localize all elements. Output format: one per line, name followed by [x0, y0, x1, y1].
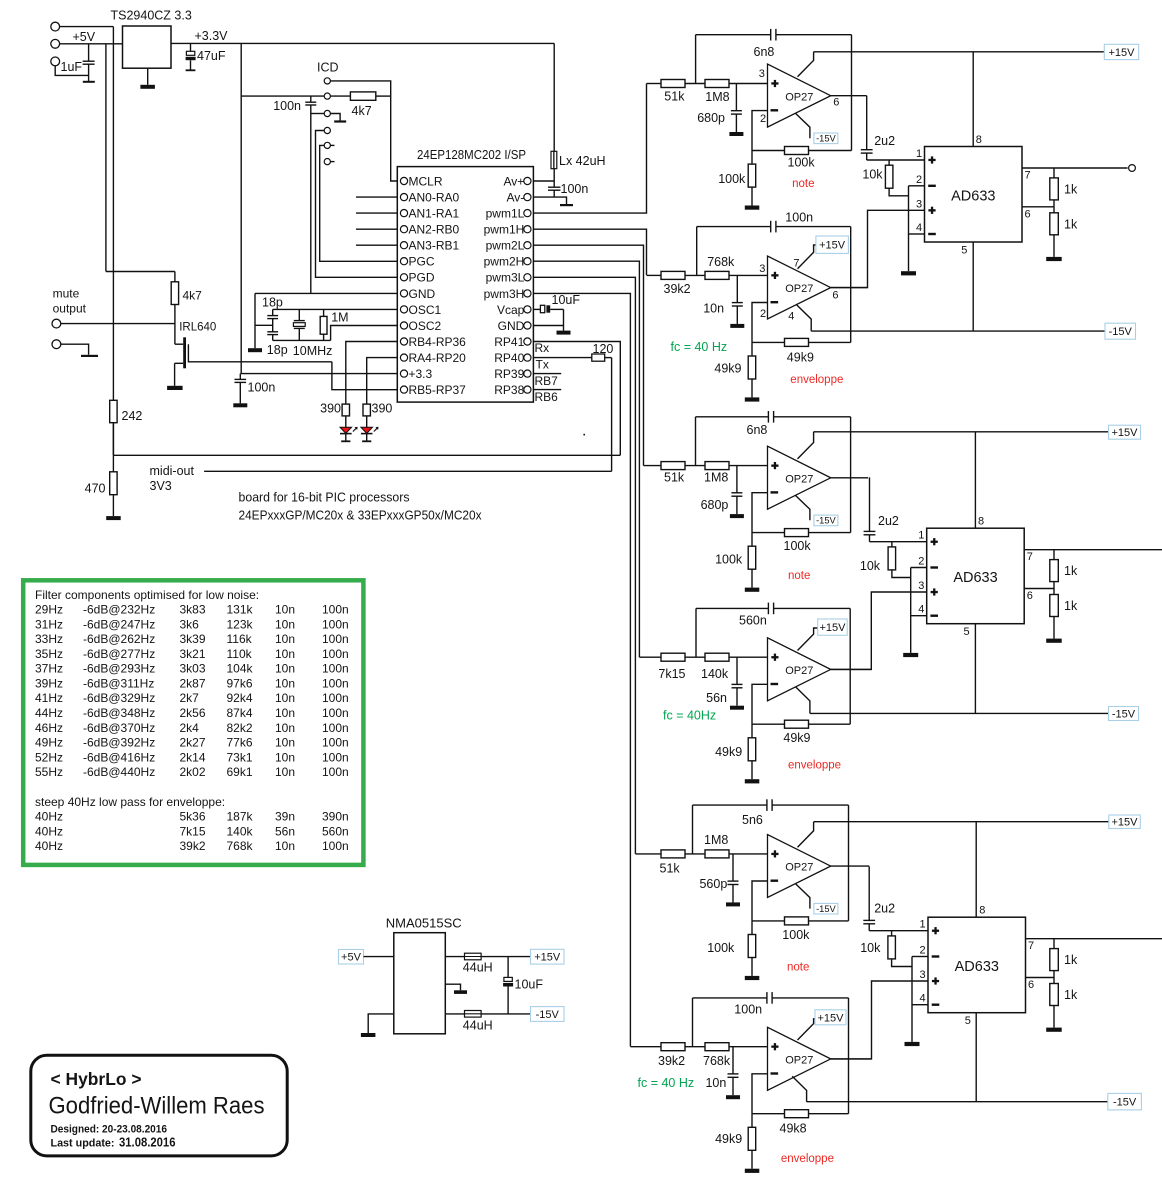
svg-text:104k: 104k — [227, 662, 254, 676]
svg-text:note: note — [792, 178, 814, 190]
svg-text:100k: 100k — [715, 552, 743, 566]
svg-text:OSC2: OSC2 — [409, 319, 442, 333]
svg-text:100n: 100n — [322, 736, 349, 750]
svg-text:2k7: 2k7 — [180, 691, 200, 705]
svg-text:49k9: 49k9 — [715, 745, 742, 759]
svg-text:768k: 768k — [707, 255, 735, 269]
capacitor C1 1uF — [88, 44, 90, 61]
connector ICD pin3 — [324, 110, 330, 116]
capacitor 10uF (NMA) — [507, 957, 509, 978]
node -15V (local) — [814, 903, 838, 914]
resistor 1k (upper) — [1053, 939, 1055, 949]
wire pins 2-4 junction to ground — [911, 957, 913, 1042]
wire pins 2-4 junction to ground — [908, 186, 910, 271]
wire node to feedback rail — [692, 805, 694, 854]
wire node to feedback rail — [695, 35, 697, 84]
svg-text:31.08.2016: 31.08.2016 — [119, 1135, 176, 1150]
wire GND pin (right) — [533, 325, 563, 327]
wire input node — [685, 1046, 705, 1048]
svg-text:5n6: 5n6 — [742, 813, 763, 827]
svg-text:73k1: 73k1 — [227, 750, 253, 764]
svg-text:2: 2 — [918, 556, 924, 568]
op-amp + input mark — [771, 82, 778, 84]
resistor 1k (lower) — [1053, 207, 1055, 213]
svg-text:1k: 1k — [1064, 953, 1078, 967]
wire -15V rail (block2) — [810, 712, 1109, 714]
wire op-amp output — [831, 668, 872, 670]
node -15V (rail 1) — [1105, 323, 1136, 339]
resistor 100k (to ground) — [751, 921, 753, 935]
svg-text:87k4: 87k4 — [227, 706, 253, 720]
wire feedback top rail — [696, 34, 771, 36]
resistor 51k — [661, 80, 685, 88]
svg-text:RB6: RB6 — [535, 390, 559, 404]
wire GND pin to crystal ground — [255, 292, 397, 294]
svg-text:AN2-RB0: AN2-RB0 — [409, 223, 460, 237]
wire +3.3V vertical distribution — [240, 43, 242, 373]
pin MCLR (left) — [400, 177, 407, 184]
resistor 1M8 — [705, 80, 729, 88]
node -15V (rail 3) — [1108, 1093, 1142, 1110]
svg-text:OP27: OP27 — [785, 473, 813, 485]
connector ICD pin1 — [324, 78, 330, 84]
svg-text:1: 1 — [920, 919, 926, 931]
svg-text:Designed: 20-23.08.2016: Designed: 20-23.08.2016 — [51, 1123, 168, 1135]
svg-text:100n: 100n — [273, 99, 301, 113]
pin RP41 (right) — [524, 338, 531, 345]
svg-text:2: 2 — [916, 174, 922, 186]
wire AD633 pin7 output — [1024, 549, 1162, 551]
svg-text:39k2: 39k2 — [180, 839, 206, 853]
svg-text:7: 7 — [1028, 940, 1034, 952]
svg-text:100n: 100n — [322, 691, 349, 705]
wire node to feedback rail — [692, 998, 694, 1047]
wire AD633#3 pin5 to -15V — [975, 1013, 977, 1102]
svg-text:+15V: +15V — [1112, 427, 1139, 439]
ground AD633 pins 2/4 — [903, 653, 918, 657]
svg-text:ICD: ICD — [317, 61, 339, 75]
svg-text:18p: 18p — [262, 296, 283, 310]
wire op-amp - node — [752, 1074, 768, 1114]
svg-text:24EPxxxGP/MC20x & 33EPxxxGP50x: 24EPxxxGP/MC20x & 33EPxxxGP50x/MC20x — [239, 508, 482, 523]
wire op-amp output — [831, 95, 867, 97]
svg-text:6: 6 — [1025, 208, 1031, 220]
wire AD633#2 pin5 to -15V — [974, 624, 976, 714]
svg-text:+3.3V: +3.3V — [195, 29, 229, 43]
resistor 49k9 (feedback) — [752, 341, 785, 343]
AD633 input polarity marks — [931, 541, 938, 543]
resistor 51k — [661, 462, 685, 470]
svg-text:3k21: 3k21 — [180, 647, 206, 661]
svg-text:output: output — [53, 302, 87, 316]
svg-text:69k1: 69k1 — [227, 765, 253, 779]
pin pwm3H (right) — [524, 290, 531, 297]
node -15V (local) — [814, 133, 838, 144]
svg-text:120: 120 — [593, 342, 614, 356]
svg-text:1: 1 — [916, 148, 922, 160]
svg-text:Av+: Av+ — [504, 174, 525, 188]
connector ICD pin2 — [324, 93, 330, 99]
svg-text:MCLR: MCLR — [409, 174, 443, 188]
resistor 49k9 (feedback) — [752, 723, 785, 725]
capacitor 6n8 (feedback) — [770, 29, 772, 41]
svg-text:AD633: AD633 — [955, 959, 999, 975]
resistor 470 — [110, 472, 117, 495]
svg-text:3k6: 3k6 — [180, 617, 200, 631]
pin pwm1L (right) — [524, 210, 531, 217]
ground NMA input return — [368, 1014, 394, 1033]
ground mute return — [61, 344, 89, 355]
svg-text:680p: 680p — [701, 498, 729, 512]
pin RP38 (right) — [524, 386, 531, 393]
wire AD633#1 pin8 to +15V — [972, 52, 974, 147]
svg-text:< HybrLo >: < HybrLo > — [51, 1069, 142, 1089]
ground NMA common — [445, 984, 460, 990]
wire AD633 pin4 — [912, 1004, 928, 1006]
svg-text:NMA0515SC: NMA0515SC — [386, 916, 462, 931]
wire input node — [685, 83, 705, 85]
svg-text:768k: 768k — [227, 839, 254, 853]
ground 1k divider — [1046, 1028, 1062, 1032]
svg-text:116k: 116k — [227, 632, 253, 646]
svg-text:PGD: PGD — [409, 271, 435, 285]
resistor 49k9 (to ground) — [751, 1114, 753, 1128]
capacitor 100n (feedback) — [766, 992, 768, 1004]
svg-text:5k36: 5k36 — [180, 810, 206, 824]
svg-text:OP27: OP27 — [785, 1055, 813, 1067]
wire 242 to Rx junction — [112, 423, 114, 456]
svg-text:AN1-RA1: AN1-RA1 — [409, 207, 460, 221]
resistor 49k8 (feedback) — [752, 1113, 785, 1115]
svg-text:pwm1L: pwm1L — [486, 207, 525, 221]
svg-text:6: 6 — [832, 289, 838, 301]
wire RB5 to Q1 drain — [332, 362, 397, 390]
svg-text:2k27: 2k27 — [180, 736, 206, 750]
wire stub AN0 — [356, 196, 397, 198]
wire op-amp V- pin — [795, 113, 810, 138]
wire AD633 pin1 — [870, 541, 927, 543]
svg-text:10n: 10n — [275, 765, 295, 779]
wire op-amp V- to -15V rail — [792, 1076, 806, 1101]
svg-text:4: 4 — [916, 222, 922, 234]
svg-text:OP27: OP27 — [785, 665, 813, 677]
wire filter input — [639, 656, 661, 658]
svg-text:RB5-RP37: RB5-RP37 — [409, 383, 467, 397]
resistor 10k — [891, 542, 893, 547]
svg-text:-15V: -15V — [816, 134, 836, 144]
DC-DC converter U5 NMA0515SC body — [394, 933, 446, 1034]
crystal X1 10MHz — [298, 309, 300, 320]
svg-text:33Hz: 33Hz — [35, 632, 63, 646]
LED D2 — [366, 416, 368, 427]
wire input node — [685, 853, 705, 855]
svg-text:768k: 768k — [703, 1054, 731, 1068]
wire feedback right rail — [851, 35, 853, 151]
wire +15V rail (top) — [814, 51, 1105, 53]
wire OSC1 rail — [273, 308, 398, 310]
pin Av+ (right) — [524, 177, 531, 184]
op-amp OP27 triangle — [768, 446, 831, 509]
wire pwm1H to filter2 — [533, 229, 646, 275]
svg-text:10k: 10k — [860, 941, 881, 955]
svg-text:51k: 51k — [664, 90, 685, 104]
voltage regulator U2 TS2940CZ 3.3 — [123, 26, 172, 68]
svg-text:47uF: 47uF — [197, 49, 226, 63]
svg-text:2: 2 — [920, 945, 926, 957]
pin OSC1 (left) — [400, 306, 407, 313]
node +15V (local) — [816, 236, 849, 253]
svg-text:110k: 110k — [227, 647, 253, 661]
ground 1k divider — [1046, 639, 1062, 643]
svg-text:10n: 10n — [275, 706, 295, 720]
resistor 100k (feedback) — [752, 920, 785, 922]
pin RA4-RP20 (left) — [400, 354, 407, 361]
resistor 1k (upper) — [1053, 550, 1055, 560]
wire feedback right rail — [849, 608, 851, 724]
capacitor 560n (feedback) — [767, 603, 769, 615]
wire RB4 to LED resistor — [346, 342, 398, 405]
wire AD633 pin1 — [869, 930, 928, 932]
wire +15V rail (bottom) — [814, 821, 1109, 823]
svg-text:51k: 51k — [660, 862, 681, 876]
svg-text:18p: 18p — [267, 343, 288, 357]
node -15V (local) — [814, 515, 838, 526]
transistor Q1 IRL640 — [175, 343, 183, 345]
wire node to feedback rail — [695, 417, 697, 466]
resistor 1k (lower) — [1053, 589, 1055, 595]
terminal mute out — [52, 319, 61, 328]
svg-text:29Hz: 29Hz — [35, 603, 63, 617]
svg-text:40Hz: 40Hz — [35, 839, 63, 853]
op-amp + input mark — [771, 656, 778, 658]
svg-text:3: 3 — [920, 969, 926, 981]
op-amp - input mark — [771, 880, 779, 882]
AD633 input polarity marks — [932, 930, 939, 932]
wire junction to 470 — [112, 455, 114, 472]
resistor 140k — [705, 653, 729, 661]
wire stub AN2 — [356, 228, 397, 230]
wire op-amp - node — [752, 881, 768, 921]
svg-text:pwm1H: pwm1H — [484, 223, 525, 237]
wire Tx riser — [611, 358, 613, 472]
capacitor 6n8 (feedback) — [767, 411, 769, 423]
svg-text:100n: 100n — [322, 750, 349, 764]
pin RB4-RP36 (left) — [400, 338, 407, 345]
svg-text:10uF: 10uF — [515, 978, 544, 992]
wire op-amp V+ to +15V rail — [798, 432, 814, 459]
svg-text:10n: 10n — [275, 632, 295, 646]
svg-text:7k15: 7k15 — [180, 824, 206, 838]
svg-text:49k9: 49k9 — [714, 361, 741, 375]
wire input node — [685, 274, 705, 276]
svg-text:PGC: PGC — [409, 255, 435, 269]
terminal mute gnd — [52, 340, 61, 349]
op-amp + input mark — [771, 274, 778, 276]
node -15V (rail 2) — [1109, 707, 1139, 721]
svg-text:100k: 100k — [718, 172, 746, 186]
svg-text:10n: 10n — [705, 1076, 726, 1090]
wire J1-pin3 to C1 — [55, 66, 88, 76]
svg-text:1M8: 1M8 — [704, 833, 728, 847]
wire r2 to op-amp + — [729, 1046, 768, 1048]
ground regulator — [147, 68, 149, 85]
capacitor 100n (+3.3 decoupling) — [239, 374, 241, 380]
wire filter input — [644, 465, 662, 467]
svg-text:note: note — [787, 962, 809, 974]
svg-text:10n: 10n — [275, 617, 295, 631]
svg-text:enveloppe: enveloppe — [788, 759, 841, 771]
wire AD633 pin6 — [1024, 588, 1054, 590]
svg-text:123k: 123k — [227, 617, 254, 631]
wire RP38 stub — [533, 389, 561, 391]
svg-text:2k4: 2k4 — [180, 721, 200, 735]
capacitor 680p (to ground) — [735, 84, 737, 111]
svg-text:2: 2 — [760, 308, 766, 320]
svg-text:6n8: 6n8 — [754, 45, 775, 59]
connector ICD pin6 — [324, 159, 330, 165]
svg-text:4: 4 — [920, 993, 926, 1005]
resistor 1M — [323, 309, 325, 316]
svg-text:6: 6 — [833, 97, 839, 109]
pin pwm1H (right) — [524, 226, 531, 233]
terminal output — [1129, 165, 1136, 172]
svg-text:100n: 100n — [785, 211, 813, 225]
svg-text:1: 1 — [918, 530, 924, 542]
svg-text:100k: 100k — [784, 539, 812, 553]
pin AN2-RB0 (left) — [400, 226, 407, 233]
wire AD633#3 pin8 to +15V — [975, 822, 977, 918]
svg-text:note: note — [788, 570, 810, 582]
wire feedback right rail — [850, 227, 852, 343]
wire op-amp V- to -15V rail — [796, 687, 810, 714]
wire op-amp V- pin — [795, 884, 810, 909]
svg-text:7: 7 — [1027, 551, 1033, 563]
svg-text:+15V: +15V — [820, 622, 847, 634]
svg-text:-6dB@329Hz: -6dB@329Hz — [83, 691, 155, 705]
resistor 7k15 — [661, 653, 685, 661]
svg-text:10n: 10n — [275, 750, 295, 764]
svg-text:2k56: 2k56 — [180, 706, 206, 720]
node +15V (local) — [818, 619, 848, 635]
terminal J1 pin3 (gnd) — [51, 57, 60, 66]
pin pwm2H (right) — [524, 258, 531, 265]
resistor 242 — [110, 400, 117, 422]
svg-text:1k: 1k — [1064, 218, 1078, 232]
resistor 1k (upper) — [1053, 168, 1055, 178]
svg-text:49Hz: 49Hz — [35, 736, 63, 750]
svg-text:+15V: +15V — [1112, 817, 1139, 829]
op-amp OP27 triangle — [768, 638, 831, 701]
wire op-amp output — [831, 287, 868, 289]
resistor 10k — [888, 160, 890, 165]
wire AD633 pin1 — [867, 159, 925, 161]
node +15V (rail 2) — [1109, 425, 1141, 439]
wire AD633 pin3 from enveloppe filter — [831, 210, 925, 287]
svg-text:100n: 100n — [322, 839, 349, 853]
terminal J1 pin1 — [51, 22, 60, 31]
wire -15V rail (block3) — [807, 1101, 1108, 1103]
pin RP40 (right) — [524, 354, 531, 361]
wire op-amp output — [831, 477, 868, 479]
inductor Lx 42uH — [553, 43, 555, 151]
svg-text:-6dB@311Hz: -6dB@311Hz — [83, 677, 154, 691]
svg-text:2: 2 — [760, 113, 766, 125]
svg-text:-15V: -15V — [536, 1009, 560, 1021]
svg-text:390: 390 — [320, 402, 341, 416]
svg-text:82k2: 82k2 — [227, 721, 253, 735]
svg-text:49k9: 49k9 — [787, 351, 814, 365]
svg-text:OSC1: OSC1 — [409, 303, 442, 317]
svg-text:10n: 10n — [275, 647, 295, 661]
node +15V (NMA out) — [531, 949, 565, 964]
svg-text:+15V: +15V — [534, 952, 561, 964]
wire feedback top rail — [693, 997, 767, 999]
resistor 100k (feedback) — [752, 150, 785, 152]
svg-text:fc = 40Hz: fc = 40Hz — [663, 708, 716, 722]
svg-text:-15V: -15V — [1112, 709, 1136, 721]
svg-text:1k: 1k — [1064, 599, 1078, 613]
resistor 4k7 (MCLR pullup) — [330, 95, 350, 97]
multiplier AD633 body — [927, 528, 1024, 624]
svg-text:pwm3H: pwm3H — [484, 287, 525, 301]
svg-text:37Hz: 37Hz — [35, 662, 63, 676]
ground 470 — [112, 495, 114, 516]
svg-text:56n: 56n — [706, 691, 727, 705]
svg-text:Godfried-Willem Raes: Godfried-Willem Raes — [49, 1093, 265, 1120]
svg-text:5: 5 — [965, 1015, 971, 1027]
svg-text:+15V: +15V — [819, 240, 846, 252]
pin OSC2 (left) — [400, 322, 407, 329]
capacitor 100n (ICD decoupling) — [305, 101, 316, 103]
svg-text:-15V: -15V — [1109, 326, 1133, 338]
wire feedback right rail — [848, 998, 850, 1114]
connector ICD pin4 — [324, 127, 330, 133]
resistor 390 (LED2) — [363, 404, 370, 416]
svg-text:100n: 100n — [322, 632, 349, 646]
wire filter input — [635, 853, 661, 855]
capacitor 560p (to ground) — [732, 854, 734, 881]
pin AN0-RA0 (left) — [400, 194, 407, 201]
wire pwm2H to filter4 — [533, 261, 639, 657]
svg-text:39k2: 39k2 — [658, 1054, 685, 1068]
svg-text:1M8: 1M8 — [705, 90, 729, 104]
op-amp + input mark — [771, 1046, 778, 1048]
wire filter input — [647, 83, 662, 85]
svg-text:8: 8 — [979, 905, 985, 917]
resistor 39k2 — [661, 271, 685, 279]
wire RP41 (Rx) — [533, 342, 620, 456]
inductor 44uH (-15V) — [445, 1013, 464, 1015]
svg-text:OP27: OP27 — [785, 283, 813, 295]
svg-text:RP41: RP41 — [494, 335, 524, 349]
svg-text:8: 8 — [978, 516, 984, 528]
svg-text:5: 5 — [964, 626, 970, 638]
op-amp - input mark — [771, 683, 779, 685]
svg-text:39k2: 39k2 — [664, 282, 691, 296]
wire input node — [685, 656, 705, 658]
resistor 1k (lower) — [1053, 978, 1055, 984]
svg-text:52Hz: 52Hz — [35, 750, 63, 764]
wire op-amp V- pin — [795, 495, 810, 520]
svg-text:fc = 40 Hz: fc = 40 Hz — [638, 1076, 695, 1090]
svg-text:steep 40Hz low pass for envelo: steep 40Hz low pass for enveloppe: — [35, 795, 225, 809]
op-amp - input mark — [771, 491, 779, 493]
resistor 1M8 — [705, 462, 729, 470]
svg-text:pwm3L: pwm3L — [486, 271, 525, 285]
svg-text:7k15: 7k15 — [658, 667, 685, 681]
resistor 51k — [661, 850, 685, 858]
svg-text:100n: 100n — [561, 182, 589, 196]
